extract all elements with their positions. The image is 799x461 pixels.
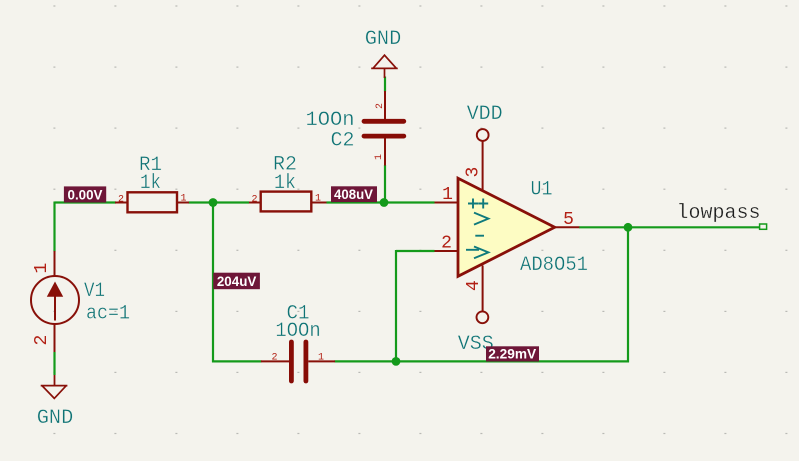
- svg-text:2: 2: [252, 195, 258, 206]
- svg-text:1: 1: [32, 263, 52, 274]
- svg-text:2.29mV: 2.29mV: [488, 345, 537, 361]
- svg-text:4: 4: [464, 280, 484, 291]
- wire: [212, 203, 214, 362]
- junction: [624, 223, 633, 232]
- svg-text:1: 1: [442, 185, 453, 205]
- svg-text:1: 1: [315, 194, 321, 205]
- wire: [395, 250, 397, 362]
- voltage source V1: [31, 251, 130, 352]
- svg-text:U1: U1: [531, 179, 553, 202]
- svg-text:lowpass: lowpass: [677, 202, 761, 225]
- wire: [579, 226, 760, 228]
- svg-text:AD8O51: AD8O51: [520, 254, 588, 277]
- resistor R1: [115, 154, 189, 212]
- svg-text:1k: 1k: [140, 172, 161, 195]
- resistor R2: [249, 154, 327, 212]
- svg-text:VDD: VDD: [467, 103, 503, 126]
- svg-text:1: 1: [181, 194, 187, 205]
- svg-text:0.00V: 0.00V: [68, 186, 104, 202]
- voltage label 0.00V: [64, 186, 106, 202]
- svg-text:408uV: 408uV: [334, 186, 374, 202]
- capacitor C2: [306, 91, 404, 166]
- power symbol VDD: [467, 103, 503, 141]
- svg-text:1OOn: 1OOn: [275, 320, 321, 343]
- wire: [53, 202, 55, 252]
- wire: [55, 201, 117, 203]
- voltage label 204uV: [213, 273, 260, 290]
- svg-text:2: 2: [375, 103, 386, 109]
- wire: [396, 250, 435, 252]
- voltage label 408uV: [331, 186, 377, 202]
- junction: [392, 357, 401, 366]
- junction: [209, 198, 218, 207]
- svg-text:1: 1: [374, 154, 385, 160]
- wire: [212, 360, 262, 362]
- wire: [384, 77, 386, 92]
- svg-text:GND: GND: [365, 28, 402, 51]
- svg-text:2: 2: [118, 195, 124, 206]
- power symbol VSS: [458, 311, 494, 356]
- net label lowpass: [677, 202, 767, 229]
- svg-text:2: 2: [32, 335, 52, 346]
- op-amp U1: [435, 141, 589, 311]
- wire: [335, 360, 630, 362]
- svg-text:GND: GND: [37, 407, 74, 430]
- svg-text:2: 2: [272, 353, 278, 364]
- svg-text:204uV: 204uV: [217, 273, 257, 289]
- wire: [627, 226, 629, 362]
- svg-text:3: 3: [464, 167, 484, 178]
- wire: [189, 201, 250, 203]
- power symbol GND (bottom): [37, 352, 74, 430]
- svg-text:C2: C2: [331, 129, 355, 152]
- wire: [384, 165, 386, 203]
- junction: [380, 198, 389, 207]
- svg-text:5: 5: [563, 210, 574, 230]
- voltage label 2.29mV: [486, 345, 539, 361]
- svg-text:V1: V1: [84, 280, 105, 303]
- wire: [327, 201, 435, 203]
- power symbol GND (top): [365, 28, 402, 78]
- svg-text:2: 2: [441, 234, 452, 254]
- capacitor C1: [261, 303, 335, 382]
- svg-text:1k: 1k: [274, 172, 296, 195]
- svg-text:ac=1: ac=1: [86, 302, 130, 325]
- svg-text:1: 1: [318, 353, 324, 364]
